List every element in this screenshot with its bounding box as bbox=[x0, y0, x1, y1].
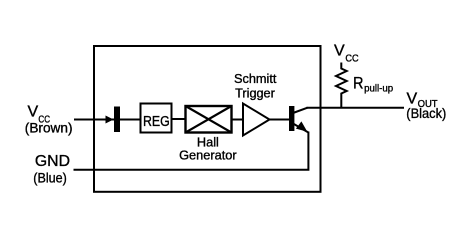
svg-text:pull-up: pull-up bbox=[364, 84, 393, 95]
svg-text:(Brown): (Brown) bbox=[25, 120, 73, 135]
svg-text:GND: GND bbox=[35, 153, 70, 170]
svg-text:Schmitt: Schmitt bbox=[234, 71, 277, 86]
svg-text:Generator: Generator bbox=[179, 148, 237, 163]
svg-text:V: V bbox=[334, 43, 345, 60]
svg-text:CC: CC bbox=[345, 54, 358, 65]
svg-text:V: V bbox=[28, 104, 39, 121]
svg-text:V: V bbox=[407, 90, 418, 107]
svg-text:(Blue): (Blue) bbox=[33, 170, 67, 185]
svg-text:REG: REG bbox=[143, 113, 170, 130]
svg-text:Trigger: Trigger bbox=[235, 85, 275, 100]
svg-text:R: R bbox=[353, 74, 364, 93]
svg-text:(Black): (Black) bbox=[406, 106, 446, 121]
